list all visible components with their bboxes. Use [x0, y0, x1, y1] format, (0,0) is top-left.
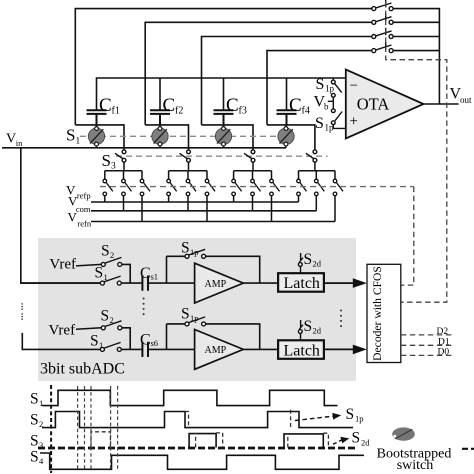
label Vin — [6, 132, 23, 149]
wire branch 3 column 1 to Vrefn bus — [141, 196, 143, 222]
wire cap to AMP row 1 — [148, 256, 195, 283]
wire branch 3 column 2 to Vrefn bus — [206, 196, 208, 222]
wire branch 3 column 3 to Vrefn bus — [271, 196, 273, 222]
dashed timing baseline fragment right — [462, 448, 474, 450]
svg-text:S: S — [30, 449, 39, 466]
label Vref row 2 — [49, 323, 76, 339]
svg-text:S: S — [181, 240, 190, 257]
svg-text:D0: D0 — [438, 348, 450, 358]
dashed wire Vout to decoder input — [386, 2, 447, 303]
capacitor C_f1 label — [99, 95, 120, 117]
timing label S3 — [30, 433, 43, 451]
svg-text:D2: D2 — [437, 327, 449, 337]
wire branch 1 column 4 to Vrefp bus — [298, 196, 300, 202]
switch S3 column 4 — [306, 150, 317, 162]
svg-text:S: S — [304, 251, 313, 268]
svg-text:−: − — [350, 78, 358, 94]
svg-text:1: 1 — [99, 340, 103, 350]
switch Vrefn select column 1 — [140, 179, 150, 196]
svg-text:b: b — [324, 102, 329, 112]
decoder with CFOS block — [367, 264, 401, 362]
switch S1p feedback row 1 — [185, 249, 206, 258]
wire Latch to decoder with arrow row 2 — [324, 345, 367, 355]
op-amp OTA U1 — [346, 70, 424, 139]
switch S1p feedback row 2 — [185, 317, 206, 326]
capacitor C_f4 label — [289, 95, 310, 117]
latch block row 2 — [278, 340, 324, 359]
svg-text:switch: switch — [397, 458, 434, 473]
svg-text:2d: 2d — [361, 437, 370, 447]
svg-text:OTA: OTA — [357, 95, 390, 114]
svg-text:S: S — [95, 265, 104, 282]
svg-text:2d: 2d — [313, 326, 322, 336]
svg-text:S: S — [352, 430, 361, 447]
svg-text:refn: refn — [77, 219, 91, 229]
svg-text:D1: D1 — [438, 338, 450, 348]
capacitor Cs6 row 2 — [142, 342, 148, 357]
wire reference-select branch bar column 2 — [169, 162, 207, 179]
svg-text:S: S — [101, 243, 110, 260]
svg-text:C: C — [289, 95, 302, 116]
svg-text:S: S — [90, 333, 99, 350]
svg-text:S: S — [102, 151, 111, 170]
switch Vcom select column 4 — [315, 179, 325, 196]
wire reference-select branch bar column 3 — [234, 162, 272, 179]
svg-text:1: 1 — [39, 398, 43, 408]
switch S1p upper at OTA minus input — [331, 78, 341, 97]
bootstrapped switch S1 column 4 — [278, 125, 294, 148]
timing waveform S2 — [42, 412, 353, 428]
capacitor C_f3 — [214, 110, 234, 125]
label 3bit subADC — [40, 361, 125, 378]
dashed wire decoder to bank control — [401, 187, 414, 286]
svg-text:f4: f4 — [302, 106, 310, 117]
label S2d row 1 — [304, 251, 322, 269]
dashed timing cursors pair — [111, 386, 118, 471]
label S1 row — [66, 126, 81, 147]
node ellipsis more channels mid — [143, 298, 145, 316]
label Bootstrapped switch — [377, 447, 452, 474]
bootstrapped switch S1 column 3 — [215, 125, 231, 148]
dashed arrow to S1p label — [295, 413, 341, 421]
wire Vin lead into subADC row 1 — [21, 282, 101, 284]
switch Vrefp select column 4 — [297, 179, 307, 196]
wire feedback line 2 from C_f2 bottom node to output switch — [145, 22, 371, 125]
wire feedback line 1 from C_f1 bottom node to output switch — [75, 9, 371, 125]
wire branch 1 column 3 to Vrefp bus — [233, 196, 235, 202]
capacitor C_f2 — [150, 110, 170, 125]
wire AMP output to Latch row 1 — [243, 282, 278, 284]
label D1 — [438, 338, 450, 348]
timing label S1p — [346, 406, 364, 424]
wire summing node line to OTA minus input — [97, 78, 346, 110]
svg-text:S: S — [304, 318, 313, 335]
svg-text:Vref: Vref — [49, 257, 76, 273]
wire node bar column 3 — [202, 125, 254, 150]
svg-text:+: + — [350, 114, 358, 130]
switch Vcom select column 2 — [186, 179, 196, 196]
svg-text:C: C — [163, 95, 176, 116]
svg-text:C: C — [226, 95, 239, 116]
svg-text:C: C — [140, 331, 151, 348]
svg-text:refp: refp — [77, 191, 91, 201]
timing waveform S1 — [42, 390, 338, 405]
dashed timing baseline S3 heavy — [38, 447, 357, 450]
svg-text:S: S — [30, 391, 39, 408]
label D0 — [438, 348, 450, 358]
switch S3 column 2 — [180, 150, 191, 162]
wire AMP feedback top row 1 — [167, 256, 260, 283]
switch S2 row 1 — [101, 257, 122, 266]
wire branch 2 column 1 to Vcom bus — [123, 196, 125, 211]
switch S3 column 1 — [115, 150, 126, 162]
svg-text:Latch: Latch — [284, 275, 320, 292]
label S1p upper — [316, 76, 335, 94]
switch Vrefp select column 2 — [167, 179, 177, 196]
wire S2 join bracket row 1 — [121, 264, 141, 283]
svg-text:Decoder with CFOS: Decoder with CFOS — [371, 266, 384, 361]
wire node bar column 4 — [267, 125, 315, 150]
subADC gray block background — [38, 238, 356, 381]
label S1 row 2 — [90, 333, 103, 351]
svg-text:s1: s1 — [151, 272, 159, 282]
dashed wire output D1 — [401, 344, 453, 346]
dashed wire output D0 — [401, 354, 453, 356]
dashed arrow to S2d label — [333, 437, 349, 444]
switch S2 row 2 — [101, 321, 122, 330]
label S2d row 2 — [304, 318, 322, 336]
timing waveform S3 pulses — [189, 434, 323, 448]
wire node bar column 2 — [145, 125, 188, 150]
svg-text:Latch: Latch — [284, 342, 320, 359]
comparator AMP row 1 — [195, 263, 244, 303]
wire S2 join bracket row 2 — [121, 328, 141, 350]
switch Vrefp select column 3 — [232, 179, 242, 196]
label Vcom — [68, 193, 91, 214]
svg-text:S: S — [66, 126, 75, 145]
wire Vcom bus — [91, 210, 316, 212]
svg-text:S: S — [101, 308, 110, 325]
capacitor Cs6 label — [140, 331, 158, 348]
svg-text:1: 1 — [76, 137, 81, 147]
svg-text:1p: 1p — [190, 247, 199, 257]
wire feedback line 4 from C_f4 bottom node to output switch — [267, 51, 372, 125]
switch Vrefp select column 1 — [103, 179, 113, 196]
svg-text:C: C — [99, 95, 112, 116]
svg-text:3bit subADC: 3bit subADC — [40, 361, 125, 378]
wire branch 2 column 3 to Vcom bus — [252, 196, 254, 211]
switch S4b on feedback line 2 — [372, 14, 393, 25]
wire branch 3 column 4 to Vrefn bus — [334, 196, 336, 222]
timing label S4 — [30, 449, 44, 467]
wire branch 2 column 4 to Vcom bus — [315, 196, 317, 211]
dashed wire output D2 — [401, 334, 453, 336]
wire AMP output to Latch row 2 — [243, 348, 278, 350]
switch S2d row 2 — [298, 320, 303, 340]
wire Vin branch down to subADC row 1 — [21, 148, 101, 283]
label S1 row 1 — [95, 265, 108, 283]
timing waveform S4 — [40, 453, 364, 469]
label S1p feedback row 2 — [181, 306, 199, 324]
wire OTA output feedback bus vertical — [392, 9, 440, 104]
wire reference-select branch bar column 1 — [105, 162, 142, 179]
wire reference-select branch bar column 4 — [299, 162, 336, 179]
dashed control row S2d bank (decoder controlled) — [100, 186, 414, 188]
wire branch 1 column 1 to Vrefp bus — [104, 196, 106, 202]
svg-text:in: in — [16, 138, 23, 148]
svg-text:f2: f2 — [175, 106, 183, 117]
capacitor C_f2 label — [163, 95, 184, 117]
svg-text:1p: 1p — [355, 414, 364, 424]
capacitor Cs1 label — [140, 265, 158, 282]
switch S4c on feedback line 3 — [372, 28, 393, 39]
wire Vrefn bus — [91, 221, 335, 223]
label S3 row — [102, 151, 117, 172]
svg-text:V: V — [6, 132, 16, 147]
capacitor Cs1 row 1 — [142, 276, 148, 291]
switch S4d on feedback line 4 — [372, 42, 393, 53]
switch Vrefn select column 3 — [270, 179, 280, 196]
svg-text:S: S — [30, 412, 39, 429]
svg-text:V: V — [68, 210, 78, 225]
dashed timing cursor heavy left — [50, 385, 52, 473]
wire Vb tap — [328, 97, 334, 109]
svg-text:1: 1 — [104, 272, 108, 282]
svg-text:2: 2 — [110, 315, 114, 325]
switch Vcom select column 1 — [122, 179, 132, 196]
dashed timing cursors cluster — [78, 386, 91, 471]
label S1p lower — [315, 115, 334, 133]
svg-text:1p: 1p — [190, 313, 199, 323]
svg-text:S: S — [346, 406, 355, 423]
label D2 — [437, 327, 449, 337]
label Vref row 1 — [49, 257, 76, 273]
switch Vcom select column 3 — [251, 179, 261, 196]
svg-text:S: S — [181, 306, 190, 323]
dashed control row S3 — [116, 155, 328, 157]
svg-text:Vref: Vref — [49, 323, 76, 339]
switch S2d row 1 — [298, 253, 303, 273]
label Vrefp — [66, 182, 91, 200]
svg-text:f1: f1 — [112, 106, 120, 117]
timing label S1 — [30, 391, 43, 409]
wire Latch to decoder with arrow row 1 — [324, 278, 367, 288]
svg-text:3: 3 — [111, 162, 116, 172]
wire branch 1 column 2 to Vrefp bus — [168, 196, 170, 202]
svg-text:out: out — [460, 95, 472, 105]
capacitor C_f4 — [277, 110, 297, 125]
dashed timing waveform S2d overlay — [185, 410, 291, 428]
switch S1p lower at OTA plus input — [331, 109, 345, 129]
label Vrefn — [68, 210, 92, 229]
svg-text:1p: 1p — [325, 84, 335, 94]
label Vout — [450, 86, 473, 106]
switch S1 row 2 — [100, 342, 121, 351]
wire branch 2 column 2 to Vcom bus — [187, 196, 189, 211]
wire Vref lead row 1 — [76, 264, 101, 266]
svg-text:S: S — [315, 115, 324, 132]
label Vb — [314, 94, 330, 112]
wire AMP feedback top row 2 — [167, 324, 260, 350]
node ellipsis more channels right — [340, 310, 342, 328]
timing label S2 — [30, 412, 43, 430]
bootstrapped switch legend icon — [392, 427, 415, 440]
wire OTA output — [424, 103, 459, 105]
svg-text:S: S — [316, 76, 325, 93]
switch Vrefn select column 4 — [333, 179, 343, 196]
label S1p feedback row 1 — [181, 240, 199, 258]
wire Vref lead row 2 — [76, 328, 101, 330]
capacitor C_f3 label — [226, 95, 247, 117]
svg-text:C: C — [140, 265, 151, 282]
bootstrapped switch S1 column 2 — [152, 125, 168, 148]
switch S1 row 1 — [100, 276, 121, 285]
wire Vrefp bus — [91, 201, 299, 203]
comparator AMP row 2 — [195, 330, 244, 370]
svg-text:AMP: AMP — [205, 345, 227, 356]
wire Vin rail — [2, 147, 286, 149]
capacitor C_f1 — [87, 110, 107, 125]
wire feedback line 3 from C_f3 bottom node to output switch — [202, 37, 372, 125]
switch S3 column 3 — [244, 150, 255, 162]
svg-text:S: S — [30, 433, 39, 450]
switch Vrefn select column 2 — [205, 179, 215, 196]
dashed timing waveform S3 overlay pulses — [91, 432, 328, 448]
latch block row 1 — [278, 273, 324, 292]
timing label S2d — [352, 430, 371, 448]
wire cap to AMP row 2 — [148, 324, 195, 350]
dashed control row S1 through bootstrapped switches — [80, 135, 278, 137]
svg-text:2d: 2d — [313, 259, 322, 269]
bootstrapped switch S1 column 1 — [88, 125, 104, 148]
node ellipsis more channels left — [21, 303, 23, 320]
svg-text:AMP: AMP — [205, 279, 227, 290]
label S2 row 2 — [101, 308, 114, 326]
label S2 row 1 — [101, 243, 114, 261]
svg-text:com: com — [76, 204, 91, 214]
svg-text:s6: s6 — [151, 338, 159, 348]
switch S4a on feedback line 1 — [372, 0, 393, 11]
svg-text:2: 2 — [110, 250, 114, 260]
svg-text:1p: 1p — [325, 123, 335, 133]
wire Vin lead into subADC row 2 — [22, 333, 100, 350]
wire node bar column 1 — [75, 125, 124, 150]
svg-text:f3: f3 — [239, 106, 247, 117]
